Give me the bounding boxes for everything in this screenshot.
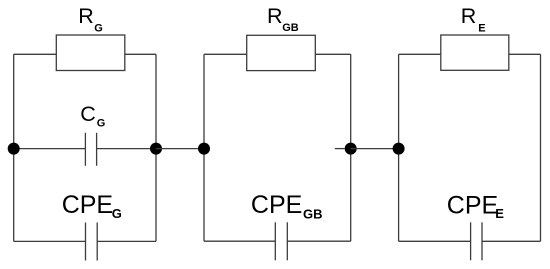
svg-text:CPE: CPE	[251, 191, 302, 219]
wire block1 middle-left	[14, 148, 86, 150]
wire block3 top-left	[399, 53, 441, 55]
wire link block2-block3	[351, 148, 399, 150]
CPE_GB element	[275, 222, 287, 260]
label R_GB	[267, 4, 299, 34]
wire link block1-block2	[156, 148, 204, 150]
node dot left	[8, 143, 20, 155]
wire block3 left rail	[398, 54, 400, 241]
wire block3 top-right	[509, 53, 541, 55]
svg-text:R: R	[78, 4, 94, 28]
svg-text:GB: GB	[303, 207, 323, 222]
svg-text:E: E	[495, 206, 504, 221]
svg-text:GB: GB	[282, 22, 299, 34]
svg-text:R: R	[461, 4, 477, 28]
svg-text:CPE: CPE	[447, 191, 498, 219]
wire block1 left rail	[13, 54, 15, 241]
svg-text:E: E	[478, 23, 485, 35]
wire block1 top-right	[125, 53, 156, 55]
wire block1 top-left	[14, 53, 57, 55]
wire block2 right rail	[350, 54, 352, 241]
node dot block3-left	[393, 143, 405, 155]
wire block2 left rail	[203, 54, 205, 241]
wire block3 bottom-right	[482, 240, 541, 242]
node dot block2-right	[345, 143, 357, 155]
wire block1 bottom-left	[14, 240, 86, 242]
wire block3 right rail	[540, 54, 542, 241]
label CPE_E	[447, 191, 505, 221]
svg-text:CPE: CPE	[62, 191, 113, 219]
wire stub left of node	[335, 148, 345, 150]
resistor R_GB box	[247, 35, 316, 70]
label C_G	[80, 102, 105, 129]
wire block2 top-right	[315, 53, 350, 55]
label CPE_G	[62, 191, 122, 221]
svg-text:G: G	[94, 23, 103, 35]
resistor R_G box	[56, 35, 125, 71]
wire block2 top-left	[204, 53, 247, 55]
CPE_E element	[471, 222, 482, 260]
CPE_G element	[86, 223, 98, 261]
svg-text:R: R	[267, 4, 283, 28]
wire block1 middle-right	[97, 148, 156, 150]
node dot block1-right	[150, 143, 162, 155]
capacitor C_G	[85, 133, 96, 166]
svg-text:C: C	[80, 102, 96, 126]
wire block1 bottom-right	[97, 240, 156, 242]
wire block2 bottom-left	[204, 240, 275, 242]
label R_G	[78, 4, 103, 34]
wire block3 bottom-left	[399, 240, 471, 242]
label R_E	[461, 4, 486, 35]
label CPE_GB	[251, 191, 323, 222]
svg-text:G: G	[97, 117, 106, 129]
wire block2 bottom-right	[287, 240, 350, 242]
node dot block2-left	[198, 143, 210, 155]
wire block1 right rail	[155, 54, 157, 241]
resistor R_E box	[441, 35, 509, 70]
svg-text:G: G	[112, 206, 122, 221]
